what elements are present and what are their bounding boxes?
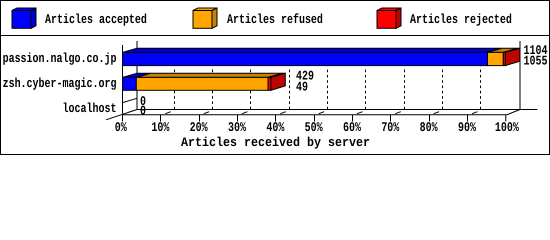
legend cube red (rejected)	[377, 8, 401, 28]
svg-text:Articles rejected: Articles rejected	[410, 12, 512, 27]
origin depth diagonal	[106, 110, 137, 120]
svg-text:70%: 70%	[381, 120, 399, 135]
svg-text:0%: 0%	[115, 120, 127, 135]
svg-text:30%: 30%	[228, 120, 246, 135]
svg-text:localhost: localhost	[63, 101, 117, 116]
legend cube orange (refused)	[193, 8, 217, 28]
svg-text:40%: 40%	[266, 120, 284, 135]
legend cube blue (accepted)	[12, 8, 36, 28]
x-axis ticks	[161, 115, 506, 122]
empty 3D bar frame localhost (zero values)	[123, 98, 138, 109]
svg-text:passion.nalgo.co.jp: passion.nalgo.co.jp	[3, 51, 117, 66]
svg-text:100%: 100%	[495, 120, 519, 135]
dashed gridlines 10%..90%	[175, 67, 481, 110]
svg-text:50%: 50%	[305, 120, 323, 135]
back-left vertical axis	[136, 41, 138, 110]
legend separator line	[0, 35, 550, 37]
svg-text:60%: 60%	[343, 120, 361, 135]
front x-axis	[122, 114, 507, 116]
svg-text:zsh.cyber-magic.org: zsh.cyber-magic.org	[3, 76, 117, 91]
3D stacked bar zsh.cyber-magic.org (blue/orange/red + red end cap)	[123, 73, 286, 90]
outer border	[1, 1, 550, 155]
svg-text:49: 49	[296, 80, 308, 95]
svg-text:80%: 80%	[420, 120, 438, 135]
3D stacked bar passion.nalgo.co.jp (blue/orange/red + red end cap)	[123, 48, 520, 65]
svg-text:1055: 1055	[524, 54, 548, 69]
svg-text:Articles accepted: Articles accepted	[45, 12, 147, 27]
svg-text:20%: 20%	[190, 120, 208, 135]
svg-text:90%: 90%	[458, 120, 476, 135]
back x-axis	[137, 109, 538, 111]
svg-text:10%: 10%	[151, 120, 169, 135]
x-axis percent labels	[115, 120, 519, 135]
back-right vertical axis	[519, 41, 521, 110]
tick depth connector dashes	[165, 112, 477, 114]
right corner depth diagonal	[507, 110, 520, 115]
svg-text:Articles refused: Articles refused	[227, 12, 323, 27]
svg-text:0: 0	[140, 104, 146, 119]
svg-text:Articles received by server: Articles received by server	[181, 135, 370, 150]
front-left vertical axis / 0% tick	[122, 45, 124, 122]
